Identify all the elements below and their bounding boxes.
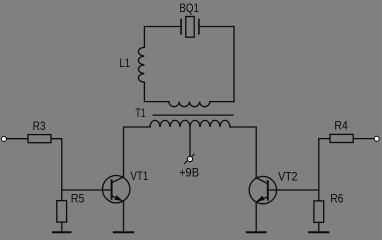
transistor VT2 — [249, 176, 276, 203]
resistor R3 — [28, 135, 51, 143]
crystal BQ1 — [181, 17, 199, 38]
wire: R4 to output terminal — [353, 138, 374, 140]
ground under VT2 — [247, 231, 266, 233]
transformer T1 primary winding — [169, 102, 210, 107]
wire: base node to VT1 base — [62, 189, 112, 191]
terminal X1 input (left) — [1, 137, 6, 142]
terminal +9B (circle with slash) — [184, 154, 194, 164]
ground under R5 — [53, 231, 71, 233]
resistor R6 — [314, 201, 324, 223]
wire: R6 to ground — [318, 222, 320, 232]
svg-text:+9B: +9B — [179, 166, 199, 180]
wire: center tap down to +9B terminal — [189, 127, 191, 156]
svg-text:R6: R6 — [330, 191, 343, 205]
svg-text:L1: L1 — [119, 56, 130, 70]
terminal X2 output (right) — [374, 136, 379, 141]
resistor R4 — [330, 134, 353, 142]
svg-text:VT2: VT2 — [278, 169, 298, 183]
wire: tank loop left lower segment — [144, 82, 169, 101]
wire: right junction up to R4 level — [319, 139, 330, 190]
transformer T1 core — [153, 114, 233, 116]
wire: tank loop top-left segment — [144, 27, 181, 48]
wire: base node down to R5 — [61, 190, 63, 201]
resistor R5 — [57, 201, 67, 223]
svg-text:R5: R5 — [71, 192, 85, 206]
transformer T1 secondary winding — [150, 120, 230, 127]
wire: VT2 base to right junction — [268, 189, 319, 191]
wire: VT1 emitter to ground — [123, 201, 125, 232]
svg-text:T1: T1 — [135, 106, 145, 120]
svg-text:R4: R4 — [334, 119, 348, 133]
ground under VT1 — [114, 231, 133, 233]
wire: VT2 emitter to ground — [255, 202, 257, 232]
ground under R6 — [309, 231, 328, 233]
svg-text:BQ1: BQ1 — [179, 1, 199, 15]
wire: R3 to junction, down to base node — [51, 139, 62, 190]
wire: secondary right lead to VT2 collector — [230, 127, 256, 177]
wire: tank loop top-right segment — [199, 27, 234, 102]
wire: right junction down to R6 — [318, 190, 320, 201]
svg-text:VT1: VT1 — [130, 169, 148, 183]
inductor L1 — [138, 47, 144, 82]
wire: input to R3 — [6, 138, 28, 140]
transistor VT1 — [103, 176, 130, 203]
wire: R5 to ground — [61, 222, 63, 232]
svg-text:R3: R3 — [33, 119, 46, 133]
wire: secondary left lead to VT1 collector — [124, 127, 151, 177]
wire: tank loop bottom-right segment — [210, 101, 234, 103]
